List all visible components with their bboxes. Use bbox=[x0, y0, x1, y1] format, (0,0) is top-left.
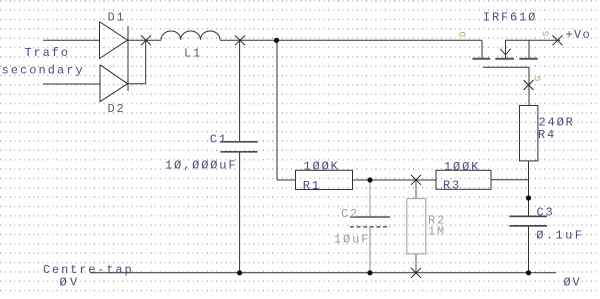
svg-text:R4: R4 bbox=[538, 128, 556, 142]
svg-text:Trafo: Trafo bbox=[25, 46, 70, 60]
svg-text:R1: R1 bbox=[303, 179, 321, 193]
svg-text:C3: C3 bbox=[537, 205, 555, 219]
svg-text:C1: C1 bbox=[210, 132, 228, 146]
svg-text:1M: 1M bbox=[428, 225, 446, 239]
svg-text:+Vo: +Vo bbox=[566, 28, 592, 42]
svg-text:1ØuF: 1ØuF bbox=[334, 233, 370, 247]
svg-text:ØV: ØV bbox=[564, 275, 582, 289]
svg-text:D: D bbox=[458, 32, 468, 37]
svg-text:ØV: ØV bbox=[60, 275, 81, 289]
svg-text:1ØØK: 1ØØK bbox=[304, 159, 340, 173]
svg-text:1Ø,ØØØuF: 1Ø,ØØØuF bbox=[165, 159, 237, 173]
svg-text:1ØØK: 1ØØK bbox=[444, 160, 480, 174]
svg-text:L1: L1 bbox=[184, 47, 202, 61]
svg-text:D2: D2 bbox=[108, 102, 126, 116]
svg-text:D1: D1 bbox=[108, 11, 126, 25]
svg-text:S: S bbox=[542, 31, 552, 36]
svg-text:G: G bbox=[534, 76, 544, 81]
svg-text:secondary: secondary bbox=[2, 64, 85, 78]
svg-text:Centre-tap: Centre-tap bbox=[43, 263, 134, 277]
svg-text:R3: R3 bbox=[443, 179, 461, 193]
svg-text:IRF61Ø: IRF61Ø bbox=[483, 10, 537, 24]
svg-text:Ø.1uF: Ø.1uF bbox=[536, 229, 584, 243]
svg-text:C2: C2 bbox=[341, 207, 359, 221]
